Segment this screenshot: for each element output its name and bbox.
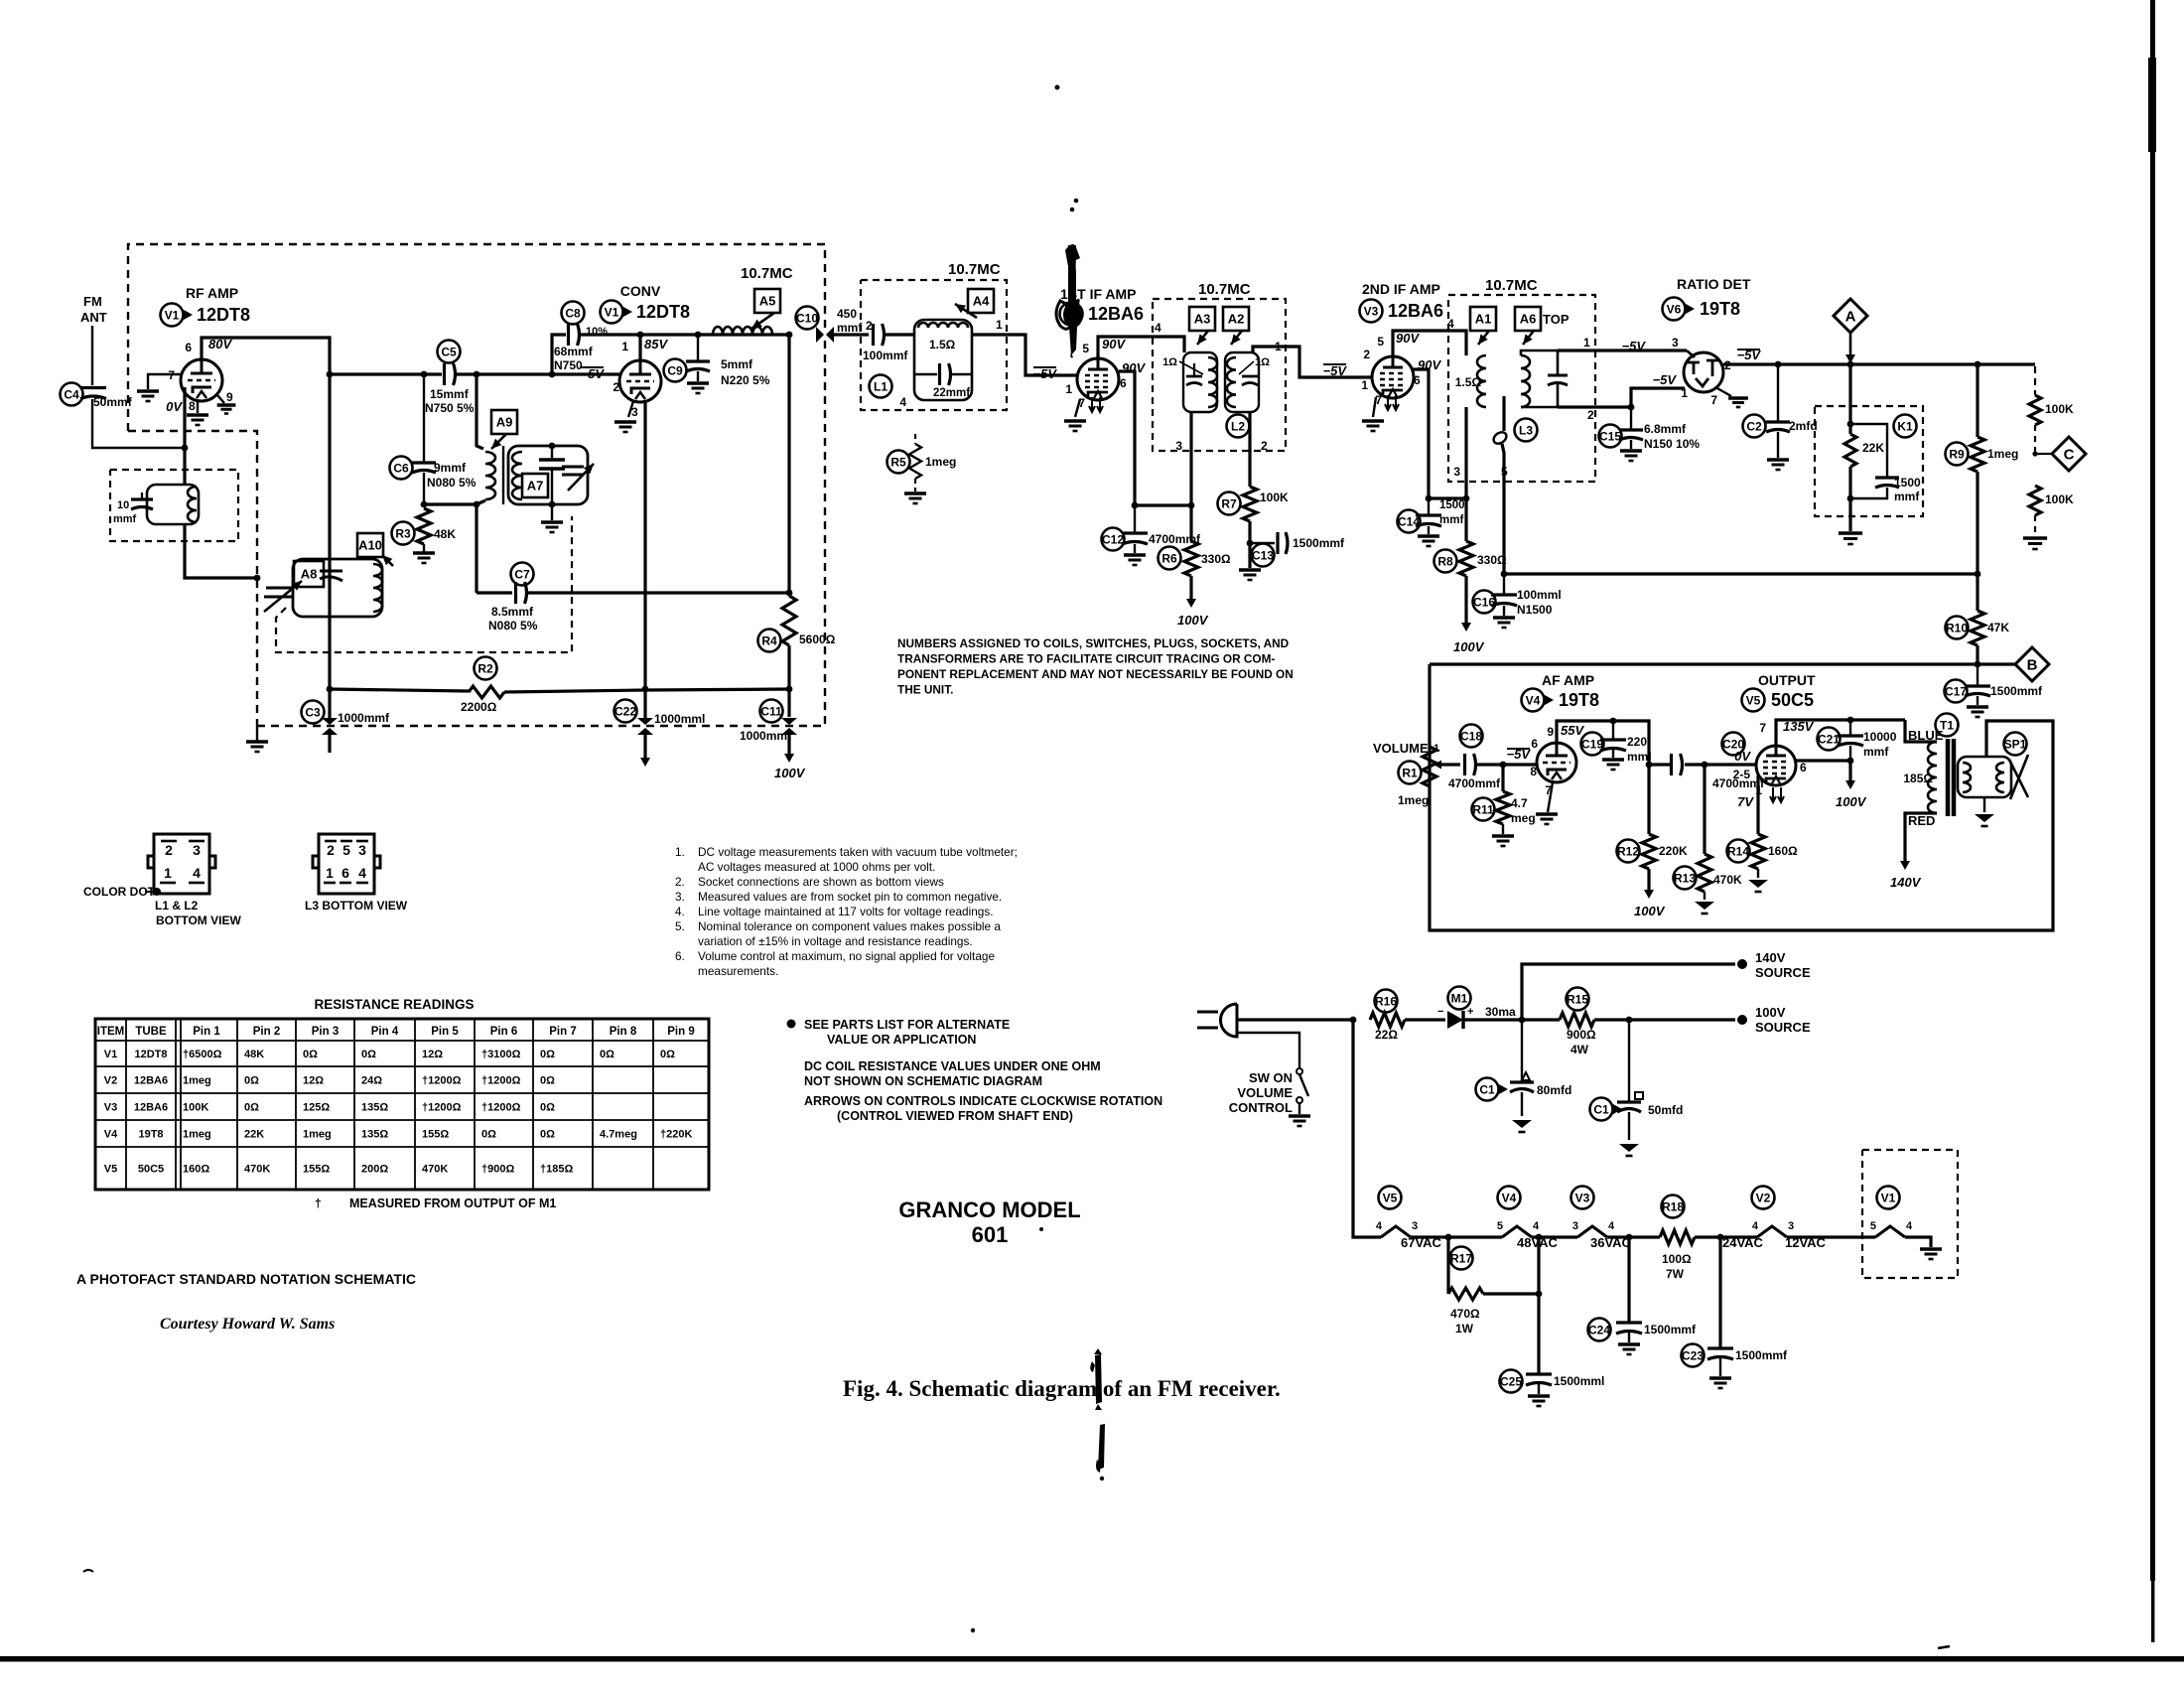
ground (C9) [687,383,709,393]
svg-text:†3100Ω: †3100Ω [481,1049,521,1060]
svg-text:12Ω: 12Ω [303,1075,324,1087]
svg-text:1.: 1. [675,845,685,859]
svg-text:K1: K1 [1897,419,1913,433]
svg-text:−5V: −5V [1653,372,1678,387]
wire R2 line right [645,689,789,690]
svg-text:100V: 100V [1836,794,1867,809]
node tank cap bottom [549,501,556,508]
svg-text:V5: V5 [104,1164,117,1176]
svg-text:R6: R6 [1161,551,1177,565]
node pin3/R8 junction [1463,495,1470,502]
svg-text:GRANCO MODEL: GRANCO MODEL [898,1197,1080,1222]
connection point B [2015,647,2049,681]
svg-text:10.7MC: 10.7MC [1485,277,1538,294]
coil L1 label [870,375,892,398]
wire C2 stem [1777,364,1779,421]
svg-text:NOT SHOWN ON SCHEMATIC DIA: NOT SHOWN ON SCHEMATIC DIAGRAM [804,1074,1042,1088]
svg-text:1meg: 1meg [1987,447,2018,461]
bullet see parts list [787,1020,796,1029]
svg-text:DC voltage measurements taken: DC voltage measurements taken with vacuu… [698,845,1018,859]
tube V4B 19T8 AF amplifier [1537,743,1576,782]
tube V3 designator [1360,300,1383,323]
wire R9 top stem [1976,364,1979,437]
wire C3 bottom stub [328,735,331,753]
wire V5 plate line [1776,720,1905,746]
svg-text:1000mml: 1000mml [740,729,790,743]
triangle marker C1B [1613,1104,1622,1114]
trimmer arrow A6 [1523,331,1534,345]
L2 1ohm pointer lines [1179,361,1254,374]
svg-text:2: 2 [1587,408,1594,422]
trimmer arrow A5 [751,313,774,329]
wire C14 link [1429,496,1466,499]
svg-text:†900Ω: †900Ω [481,1164,514,1176]
svg-text:160Ω: 160Ω [1768,844,1798,858]
svg-text:100K: 100K [2045,492,2074,506]
svg-text:MEASURED FROM OUTPUT OF M1: MEASURED FROM OUTPUT OF M1 [349,1196,556,1210]
svg-text:C17: C17 [1945,684,1967,698]
wire B bus [1430,662,2015,665]
svg-text:mmf: mmf [1439,514,1463,526]
wire heater bus left [1353,1020,1381,1237]
wire heater V4-V3 [1532,1235,1577,1238]
node R2 right junction [786,686,793,693]
wire C17 stem [1977,664,1979,685]
capacitor C2 label [1743,415,1766,438]
wire C25 drop [1537,1237,1540,1373]
heater arrows V5 [1770,787,1784,802]
RF shield box dashed outline [128,244,825,431]
pin underbar [356,882,368,885]
capacitor C18 4700mmf [1465,754,1476,775]
capacitor C17 label [1945,680,1968,703]
svg-text:2.: 2. [675,875,685,889]
svg-text:155Ω: 155Ω [422,1129,449,1141]
svg-text:7V: 7V [1737,794,1754,809]
svg-text:4: 4 [1376,1220,1383,1232]
resistor R16 label [1375,990,1398,1013]
svg-text:470K: 470K [244,1164,270,1176]
svg-text:4.: 4. [675,905,685,918]
svg-text:SOURCE: SOURCE [1755,1020,1811,1035]
node A9 primary bottom [474,501,480,508]
trimmer arrow A1 [1478,331,1489,345]
resistor R8 330ohm [1459,541,1473,576]
small dot bottom middle [971,1628,975,1632]
wire AVC line to B string [1504,572,1978,575]
wire osc to C3 [328,689,331,718]
resistor R10 label [1946,617,1969,639]
L1 coil enclosure [914,320,972,400]
capacitor C17 1500mmf [1965,686,1990,696]
svg-text:4700mmf: 4700mmf [1149,532,1201,546]
ground (conv pin3) [614,422,636,432]
node C9 tap [695,332,702,339]
capacitor 100mmf L1 input [874,324,885,346]
svg-text:COLOR DOT: COLOR DOT [83,885,156,899]
svg-text:mml: mml [1627,750,1652,764]
ground stub below shield [256,726,258,742]
svg-text:VALUE OR APPLICATION: VALUE OR APPLICATION [827,1033,976,1047]
svg-text:0V: 0V [1734,749,1751,764]
svg-text:4.7meg: 4.7meg [600,1129,637,1141]
coil 10.7MC oscillator [713,327,772,335]
svg-text:6: 6 [185,341,192,354]
node C7 line junction [786,590,793,597]
arrow T1 to 140V [1900,846,1910,870]
wire 140V riser [1522,964,1735,1020]
ground (speaker) [1975,814,1994,826]
svg-text:19T8: 19T8 [1559,690,1599,710]
svg-text:12DT8: 12DT8 [636,302,690,322]
svg-text:A1: A1 [1475,312,1492,327]
tube V1 section A designator [161,304,184,327]
wire R10 stems [1976,574,1979,611]
pin overbar [341,840,352,843]
capacitor C15 label [1599,425,1622,448]
svg-text:C25: C25 [1500,1374,1522,1388]
svg-text:V3: V3 [1575,1191,1590,1204]
svg-text:0Ω: 0Ω [540,1129,555,1141]
wire tank cap to bottom [551,470,553,504]
svg-text:47K: 47K [1987,621,2009,634]
RF shield box dashed bottom-left jog [128,431,257,726]
svg-text:0Ω: 0Ω [540,1049,555,1060]
wire V3 plate to L3 [1393,331,1466,356]
wire R7 bottom [1248,521,1251,568]
svg-text:6: 6 [1120,376,1127,390]
wire V3 cathode ground [1373,397,1376,417]
svg-text:1: 1 [996,318,1003,332]
wire C14 stem [1428,498,1430,514]
wire plug to R16 [1237,1018,1353,1021]
capacitor C10 label [796,307,819,330]
rectifier M1 diode [1447,1011,1463,1029]
node K1 bottom parallel [1847,495,1854,502]
antenna coil shield dashed box [110,470,238,541]
svg-text:1meg: 1meg [303,1129,332,1141]
svg-text:Pin 5: Pin 5 [431,1026,459,1038]
resistor R13 470K [1698,854,1711,892]
pin overbar [325,840,337,843]
svg-text:135Ω: 135Ω [361,1129,388,1141]
svg-text:7: 7 [1759,721,1766,735]
resistor R16 22ohm [1370,1013,1405,1027]
svg-text:V2: V2 [1756,1191,1771,1204]
resistor R11 4.7meg [1496,791,1510,824]
resistor R5 1meg [909,444,921,479]
svg-text:CONTROL: CONTROL [1229,1100,1293,1115]
wire C2 gnd stem [1777,432,1779,458]
resistor R9 label [1946,443,1969,466]
svg-text:5: 5 [1377,335,1384,349]
AF enclosure left+bottom [1430,664,2053,930]
svg-text:100V: 100V [1755,1005,1786,1020]
adjustment A2 label [1223,307,1249,331]
wire R4 bottom to R2 line [787,645,790,689]
oscillator coil winding [373,564,382,612]
ground (C1B) [1619,1144,1639,1156]
node 100V source [1737,1015,1747,1025]
svg-text:−5V: −5V [1033,366,1058,381]
RF shield box dashed right edge lower [257,341,825,726]
page right edge line [2148,0,2156,1642]
svg-text:mmf: mmf [1863,745,1889,759]
wire R2 line mid [504,690,645,692]
capacitor C9 label [664,359,687,382]
tube V4 designator [1522,689,1545,712]
tube V1 section B designator [601,301,623,324]
wire V4 cathode gnd [1548,782,1553,812]
wire R13 gnd stem [1704,892,1706,900]
svg-text:450: 450 [837,307,857,321]
svg-text:50C5: 50C5 [1771,690,1814,710]
ground (R3) [413,553,435,563]
svg-text:50mmf: 50mmf [93,395,133,409]
node tank cap top [549,443,556,450]
svg-text:C11: C11 [760,704,782,718]
wiper arrow R1 [1441,764,1455,766]
svg-text:5: 5 [342,842,350,858]
capacitor C15 6.8mmf [1619,430,1643,440]
node C2 tap [1775,361,1782,368]
svg-text:601: 601 [972,1222,1009,1247]
svg-text:100K: 100K [183,1102,208,1114]
svg-text:N750: N750 [554,358,583,372]
svg-text:22K: 22K [1862,441,1884,455]
wire V2 cathode to ground [1075,399,1080,417]
capacitor 10mmf antenna [131,499,153,509]
wire junction to C20 [1649,763,1671,766]
svg-text:ANT: ANT [80,310,107,325]
svg-text:4: 4 [193,865,201,881]
capacitor tank fixed [539,460,565,469]
adjustment A8 label [294,561,324,587]
rectifier M1 label [1448,987,1471,1010]
resistor R3 label [392,522,415,545]
svg-text:T1: T1 [1940,718,1954,732]
wire C9 to ground [697,371,699,381]
svg-text:2: 2 [327,842,335,858]
ground (C23) [1709,1378,1731,1388]
wire V2 pin6 down [1119,371,1135,505]
svg-text:SW ON: SW ON [1249,1070,1293,1085]
ground (C24) [1618,1344,1640,1354]
svg-text:0Ω: 0Ω [244,1102,259,1114]
node R12/C20 junction [1646,762,1653,769]
wire C1B gnd stem [1628,1112,1630,1140]
svg-text:6: 6 [1531,737,1538,751]
resistor R2 label [475,657,497,680]
ground (C19) [1602,760,1624,770]
triangle marker B [623,307,632,317]
wire conv cathode down to C22 [643,433,646,689]
capacitor C25 1500mml [1526,1374,1552,1385]
wire wiper to C18 [1441,763,1460,766]
wire K1 to ground [1848,498,1851,531]
wire C22 stem [643,689,646,718]
wire pin3 into tube [1687,351,1695,357]
resistor R14 label [1727,840,1750,863]
wire junction to R15 [1522,1018,1560,1021]
svg-text:8: 8 [1530,765,1537,778]
svg-text:NUMBERS ASSIGNED TO COILS, SWI: NUMBERS ASSIGNED TO COILS, SWITCHES, PLU… [897,636,1290,650]
heater V4 [1502,1226,1532,1237]
wire ratio det output W1 [1723,362,2035,365]
wire C6 to R3 junction [423,473,425,504]
node C22 junction [642,686,649,693]
svg-text:3: 3 [1788,1220,1794,1232]
wire V3 pin6 down [1413,369,1429,498]
tube V5 designator [1742,689,1765,712]
heater arrows V2 [1089,397,1103,412]
svg-text:1: 1 [1681,386,1688,400]
svg-text:100V: 100V [1177,613,1209,628]
wire V5 pin6 link [1796,759,1850,762]
svg-text:SEE PARTS LIST FOR ALTERNA: SEE PARTS LIST FOR ALTERNATE [804,1018,1010,1032]
K1 dashed box [1815,406,1923,516]
capacitor C11 label [760,700,783,723]
resistor R18 100ohm [1660,1230,1695,1244]
svg-text:2: 2 [165,842,173,858]
svg-text:155Ω: 155Ω [303,1164,330,1176]
svg-text:ARROWS ON CONTROLS INDICATE: ARROWS ON CONTROLS INDICATE CLOCKWISE RO… [804,1094,1162,1108]
wire L1 pin1 out [972,335,1077,375]
wire R14 gnd stem [1757,869,1759,878]
svg-text:1000mml: 1000mml [654,712,705,726]
svg-text:C24: C24 [1588,1323,1610,1336]
capacitor C6 9mmf [412,463,436,473]
capacitor C13 1500mmf [1278,532,1288,554]
svg-text:AF AMP: AF AMP [1542,672,1594,688]
svg-text:220: 220 [1627,735,1647,749]
svg-text:0Ω: 0Ω [540,1102,555,1114]
pin overbar [356,840,368,843]
oscillator tank enclosure [508,446,588,504]
svg-text:C18: C18 [1460,729,1482,743]
node C14 junction [1426,495,1433,502]
svg-text:V4: V4 [104,1129,118,1141]
ground (C2) [1767,460,1789,470]
node K1 top parallel [1847,421,1854,428]
capacitor C16 label [1473,591,1496,614]
svg-text:Fig. 4. Schematic diagram of a: Fig. 4. Schematic diagram of an FM recei… [843,1376,1281,1401]
wire A9 primary top to line [477,374,483,449]
wire to C diamond [2035,453,2051,455]
node A9 coil top branch [474,371,480,378]
L3 shield dashed box [1448,295,1595,482]
wire L3 pin3 down [1464,407,1467,498]
svg-text:measurements.: measurements. [698,964,778,978]
svg-text:1500mml: 1500mml [1554,1374,1604,1388]
svg-text:2: 2 [613,380,619,394]
svg-text:−5V: −5V [1323,363,1348,378]
svg-text:0Ω: 0Ω [600,1049,614,1060]
overbar approx5V af [1507,748,1530,750]
svg-text:0Ω: 0Ω [660,1049,675,1060]
svg-text:68mmf: 68mmf [554,345,594,358]
wire V1A cathode to ground [197,401,199,413]
L1 shield dashed box [861,280,1007,410]
svg-text:Nominal tolerance on component: Nominal tolerance on component values ma… [698,919,1001,933]
svg-text:100V: 100V [1634,904,1666,918]
overbar -5V 1st if [1033,366,1056,368]
pin underbar [189,882,205,885]
svg-text:C4: C4 [64,387,79,401]
node R9/R10 mid junction [1975,571,1981,578]
wire R5 dashed ends [914,434,916,444]
svg-text:10: 10 [117,499,129,511]
wire C7 line [477,591,512,594]
svg-text:V1: V1 [165,308,180,322]
wire V1A grid to ground [148,374,181,389]
wire C1A gnd stem [1521,1092,1523,1116]
wire switch to ground [1298,1103,1300,1114]
wire BLUE lead [1905,720,1937,742]
svg-text:+: + [1467,1006,1473,1018]
arrow C22 down [640,735,650,767]
node R17/C25 [1536,1291,1543,1298]
wire antenna line through coil box [183,448,186,485]
wire V1A pin9 to ground [217,395,224,403]
svg-text:0Ω: 0Ω [540,1075,555,1087]
node conv grid top [637,332,644,339]
tube V6A 19T8 ratio detector [1684,352,1723,392]
svg-text:Pin 4: Pin 4 [371,1026,399,1038]
svg-text:A10: A10 [358,538,382,553]
small mark bottom left [83,1570,93,1572]
capacitor C7 label [511,563,534,586]
svg-text:L1 & L2: L1 & L2 [155,899,199,913]
wire antenna coil bottom to shield [185,524,257,578]
svg-text:100mml: 100mml [1517,588,1562,602]
wire L2 pin3 down [1189,412,1192,505]
capacitor C12 label [1102,528,1125,551]
svg-text:OUTPUT: OUTPUT [1758,672,1816,688]
svg-text:85V: 85V [644,337,668,352]
ground (V4 cathode) [1536,814,1558,824]
svg-text:mmf: mmf [1894,490,1920,503]
svg-text:R17: R17 [1450,1251,1472,1265]
svg-text:V6: V6 [1667,302,1682,316]
svg-text:90V: 90V [1102,337,1126,352]
capacitor C14 label [1398,510,1421,533]
capacitor C5 label [438,341,461,363]
svg-text:A9: A9 [496,415,513,430]
tube V2 heater label [1752,1187,1775,1209]
capacitor C22 label [614,700,637,723]
resistor R13 label [1674,867,1697,890]
wire R12 top [1647,765,1650,834]
svg-text:1500mmf: 1500mmf [1990,684,2043,698]
wire K1 cap branch bottom [1850,488,1887,498]
resistor R15 900ohm [1560,1013,1594,1027]
ground (R14) [1748,880,1768,892]
svg-text:100V: 100V [1453,639,1485,654]
svg-text:Pin 3: Pin 3 [312,1026,339,1038]
node B junction [1975,661,1981,668]
svg-text:V2: V2 [1064,307,1079,321]
wire C1B stem [1628,1020,1630,1102]
svg-text:3: 3 [1412,1220,1418,1232]
V1 heater dashed box [1862,1150,1958,1278]
svg-text:6: 6 [341,865,349,881]
svg-text:Line voltage maintained at 117: Line voltage maintained at 117 volts for… [698,905,994,918]
wire conv pin3 to ground [628,401,633,417]
capacitor C2 2mfd [1766,422,1790,432]
svg-text:3: 3 [193,842,201,858]
capacitor C24 label [1588,1319,1611,1341]
